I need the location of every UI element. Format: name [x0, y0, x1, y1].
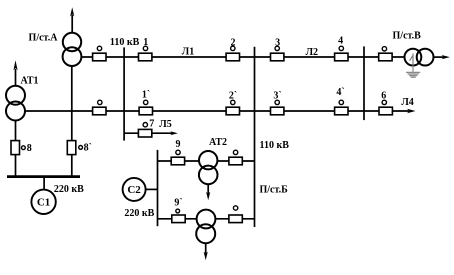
transformer Tr2 П/ст.Б — [196, 210, 215, 244]
ground symbol П/ст.В — [406, 66, 420, 77]
wire П/ст.А riser — [71, 15, 73, 33]
breaker 7 (Л5) — [138, 123, 151, 138]
arrow right П/ст.В — [442, 55, 450, 59]
breaker 5 (П/ст.В side) — [379, 47, 392, 61]
wire branch 9 left — [158, 160, 200, 162]
breaker 4 — [335, 46, 348, 61]
svg-text:220 кВ: 220 кВ — [124, 208, 154, 219]
svg-text:С1: С1 — [37, 197, 50, 209]
breaker 3' — [271, 100, 284, 115]
bus 110 кВ left (vertical busbar x=124) — [123, 47, 125, 140]
breaker 1' — [139, 100, 152, 115]
svg-text:9: 9 — [176, 139, 181, 150]
breaker 6 — [379, 100, 392, 115]
breaker 8' (vertical) — [67, 141, 82, 155]
bus П/ст.Б (vertical busbar x=254.5) — [254, 47, 256, 227]
wire line Л1 (110 kV line 1, y=57) — [81, 56, 404, 58]
breaker 8 (vertical) — [11, 141, 25, 155]
wye winding mark П/ст.В — [410, 53, 413, 66]
arrow up П/ст.А — [70, 7, 74, 16]
svg-text:П/ст.Б: П/ст.Б — [260, 185, 289, 196]
svg-text:110 кВ: 110 кВ — [110, 37, 140, 48]
breaker 3 — [271, 46, 284, 61]
svg-text:3: 3 — [275, 38, 280, 49]
bus 220 кВ (thick busbar bottom left) — [7, 175, 80, 178]
arrow down АТ2 — [206, 192, 210, 200]
generator С1 — [31, 190, 55, 214]
arrow up АТ1 — [13, 60, 17, 70]
svg-text:8`: 8` — [84, 142, 92, 153]
svg-text:1`: 1` — [142, 89, 150, 100]
svg-text:220 кВ: 220 кВ — [54, 184, 84, 195]
breaker АТ2 right — [229, 150, 242, 165]
svg-text:П/ст.А: П/ст.А — [29, 32, 59, 43]
wire branch 9' left — [158, 218, 197, 220]
breaker 9' — [172, 209, 185, 223]
svg-text:С2: С2 — [127, 184, 141, 196]
svg-text:2: 2 — [231, 38, 236, 49]
wire П/ст.А drop (x=71.8) — [71, 66, 73, 177]
svg-text:Л4: Л4 — [401, 97, 413, 108]
breaker A1 (line 1, П/ст.А side) — [93, 46, 106, 61]
wire С1 stem — [43, 177, 45, 190]
svg-text:Л1: Л1 — [182, 46, 194, 57]
wire АТ2 down stem — [207, 184, 209, 195]
wire branch 9' right — [215, 218, 254, 220]
svg-text:4`: 4` — [336, 87, 344, 98]
bus right (vertical busbar x=364) — [363, 46, 365, 120]
bus С2 220 кВ (vertical x=157.5) — [157, 150, 159, 226]
autotransformer АТ2 — [199, 151, 218, 184]
svg-text:3`: 3` — [273, 90, 281, 101]
svg-text:9`: 9` — [174, 197, 182, 208]
wire Л5 branch (y=133.2) — [124, 132, 172, 134]
svg-text:4: 4 — [338, 36, 343, 47]
svg-text:АТ1: АТ1 — [20, 76, 38, 87]
arrow right Л4 — [407, 109, 416, 113]
wire АТ1 riser — [15, 69, 17, 86]
transformer П/ст.А — [63, 33, 82, 66]
transformer П/ст.В — [405, 49, 434, 66]
svg-text:П/ст.В: П/ст.В — [393, 31, 422, 42]
breaker Tr2 right — [229, 206, 242, 223]
svg-text:8: 8 — [27, 143, 32, 154]
svg-text:7: 7 — [149, 119, 154, 130]
breaker 9 — [171, 150, 184, 165]
breaker 2' — [226, 100, 239, 115]
breaker 4' — [335, 100, 348, 115]
wire line 2 (1'-2'-3'-4'-6, y=111) — [25, 110, 410, 112]
wire АТ1 drop (x=15.5) — [15, 121, 17, 177]
wire П/ст.В right stem — [433, 56, 444, 58]
breaker 2 — [226, 46, 239, 61]
wire branch 9 right — [217, 160, 254, 162]
svg-text:Л2: Л2 — [306, 47, 318, 58]
svg-text:110 кВ: 110 кВ — [260, 140, 290, 151]
svg-text:2`: 2` — [229, 90, 237, 101]
svg-text:Л5: Л5 — [159, 119, 171, 130]
wire С2 link — [146, 188, 158, 190]
breaker 1 — [139, 46, 152, 61]
arrow down Tr2 — [204, 252, 208, 261]
generator С2 — [123, 178, 146, 201]
wire Tr2 down stem — [205, 243, 207, 255]
svg-text:1: 1 — [143, 37, 148, 48]
arrow right Л5 — [170, 131, 178, 135]
svg-text:6: 6 — [381, 90, 386, 101]
breaker A2 (line 2 left) — [93, 100, 106, 115]
svg-text:АТ2: АТ2 — [209, 137, 227, 148]
autotransformer АТ1 — [6, 86, 25, 121]
